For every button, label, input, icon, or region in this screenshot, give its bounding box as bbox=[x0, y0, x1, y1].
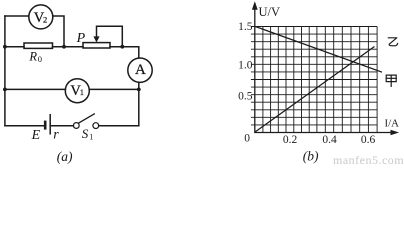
svg-text:A: A bbox=[135, 62, 146, 78]
svg-text:2: 2 bbox=[43, 14, 47, 24]
svg-text:1.0: 1.0 bbox=[238, 60, 253, 72]
svg-text:0.4: 0.4 bbox=[322, 134, 337, 146]
svg-text:manfen5.com: manfen5.com bbox=[333, 153, 404, 165]
svg-text:0: 0 bbox=[244, 132, 250, 144]
svg-text:1: 1 bbox=[89, 133, 93, 142]
svg-text:P: P bbox=[76, 31, 86, 46]
svg-text:(a): (a) bbox=[57, 149, 73, 164]
svg-text:r: r bbox=[53, 127, 59, 142]
svg-text:0.6: 0.6 bbox=[361, 134, 376, 146]
svg-text:S: S bbox=[82, 126, 89, 141]
svg-text:I/A: I/A bbox=[385, 118, 400, 130]
svg-text:0.2: 0.2 bbox=[283, 134, 298, 146]
svg-text:0.5: 0.5 bbox=[238, 90, 253, 102]
svg-text:U/V: U/V bbox=[259, 5, 281, 19]
svg-text:0: 0 bbox=[38, 54, 42, 64]
svg-text:1.5: 1.5 bbox=[238, 21, 253, 33]
svg-text:1: 1 bbox=[80, 87, 84, 97]
svg-text:E: E bbox=[31, 128, 41, 143]
svg-text:R: R bbox=[28, 49, 37, 63]
svg-text:(b): (b) bbox=[303, 148, 319, 163]
